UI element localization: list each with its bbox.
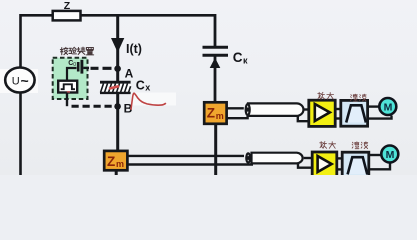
amplifier triangle (bottom) <box>318 156 332 172</box>
filter trapezoid <box>346 105 366 122</box>
wire Zm to cable (top pair) <box>227 107 244 109</box>
glyph jiao <box>60 47 67 54</box>
svg-text:M: M <box>386 149 395 161</box>
wire middle vertical (Cx branch) <box>116 14 119 152</box>
svg-text:m: m <box>216 111 224 121</box>
coupling capacitor Ck <box>203 46 229 49</box>
source U~ <box>5 68 34 93</box>
label lvbo (滤波) bottom <box>352 142 368 149</box>
svg-text:M: M <box>384 101 393 113</box>
svg-text:~: ~ <box>21 73 29 89</box>
motor M (top) <box>379 98 396 115</box>
pulse generator box <box>58 81 77 93</box>
filter box (top) <box>341 100 368 126</box>
wire top bus <box>21 14 216 17</box>
svg-text:A: A <box>125 67 134 81</box>
svg-text:0: 0 <box>73 62 76 68</box>
wires filter to motor (bottom) <box>369 154 381 156</box>
red tick in pulse box <box>67 91 70 93</box>
node B junction dot <box>114 103 121 110</box>
svg-text:Z: Z <box>107 154 115 169</box>
dashed link to node B <box>72 105 113 108</box>
coax cable (top) <box>248 103 303 116</box>
wire below top Zm to bottom edge <box>214 124 217 176</box>
wires amplifier to filter (bottom) <box>337 157 342 159</box>
measuring impedance Zm (top) <box>204 102 226 124</box>
wire bottom Zm to cable pair <box>128 155 245 157</box>
amplifier box (bottom) <box>312 152 337 178</box>
glyph zhuang <box>77 47 85 54</box>
wire pulse generator to dashed B line <box>66 93 68 107</box>
measuring impedance Zm (bottom) <box>104 151 127 170</box>
motor M (bottom) <box>381 146 398 163</box>
capacitor C0 <box>77 62 80 72</box>
label lvbo (滤波) top <box>351 94 367 101</box>
filter box (bottom) <box>342 152 369 178</box>
svg-text:к: к <box>243 55 248 65</box>
wire middle below Zm <box>115 170 118 176</box>
pulse symbol <box>61 84 75 89</box>
svg-text:Z: Z <box>207 106 215 121</box>
label fangda (放大) bottom <box>320 142 336 149</box>
wires amplifier to filter (top) <box>335 108 341 110</box>
label fangda (放大) top <box>318 92 334 99</box>
label jiaoyan-zhuangzhi (校验装置) <box>60 47 93 55</box>
wire right vertical (Ck branch) <box>214 14 217 47</box>
dashed link to node A <box>91 67 112 70</box>
test object Cx hatched block <box>100 82 131 93</box>
svg-text:C: C <box>136 79 145 93</box>
calibration device box (green) <box>53 58 88 99</box>
svg-text:Z: Z <box>64 0 71 12</box>
svg-text:I(t): I(t) <box>126 42 142 56</box>
red PD pulse curve <box>131 93 166 110</box>
capacitor C0 wiring <box>67 68 77 81</box>
red defect mark in Cx <box>109 86 119 88</box>
svg-text:m: m <box>116 159 124 169</box>
coax cable (bottom) <box>252 153 303 164</box>
wires filter to motor (top) <box>368 105 379 107</box>
resistor Z <box>53 11 81 21</box>
amplifier box (top) <box>309 100 335 126</box>
arrow up on Ck branch <box>210 58 221 68</box>
node A junction dot <box>114 65 121 72</box>
wire C0 to box edge <box>83 67 89 69</box>
wire left vertical <box>19 14 22 175</box>
wire cable to amplifier (bottom) <box>304 157 312 159</box>
amplifier triangle <box>315 104 330 121</box>
filter trapezoid (bottom) <box>348 157 368 174</box>
glyph yan <box>69 47 76 54</box>
glyph zhi <box>86 48 93 55</box>
wire cable to amplifier (top) <box>304 108 309 110</box>
svg-text:U: U <box>12 75 20 87</box>
arrow I(t) <box>111 38 124 53</box>
wire Ck to Zm <box>214 57 217 103</box>
svg-text:C: C <box>233 50 243 65</box>
svg-text:x: x <box>145 83 150 93</box>
